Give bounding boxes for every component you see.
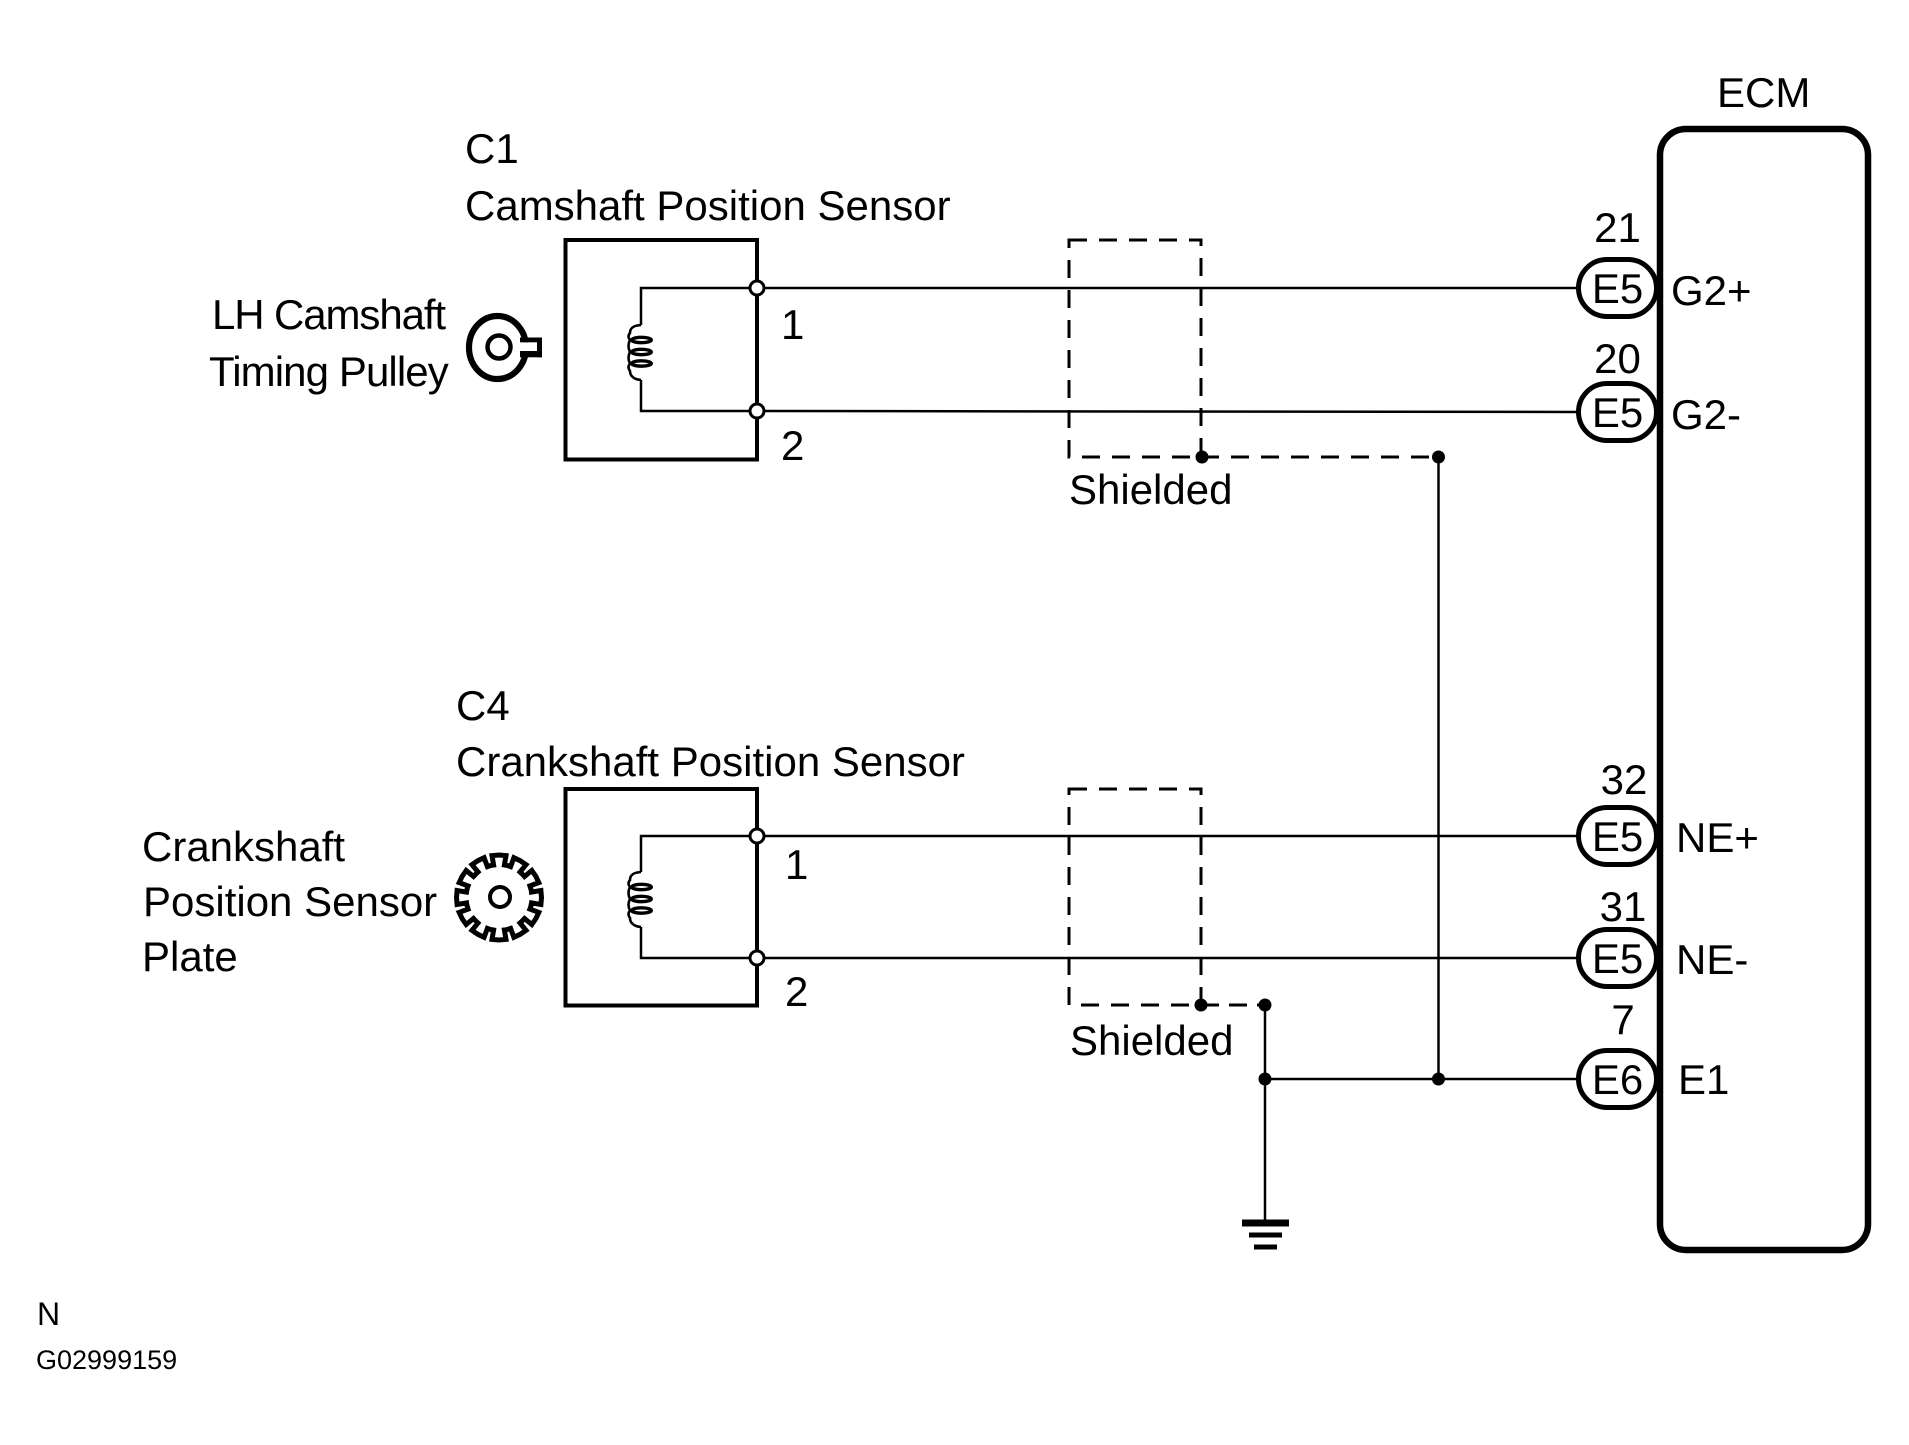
svg-text:C1: C1 xyxy=(465,125,519,172)
svg-text:LH Camshaft: LH Camshaft xyxy=(212,291,446,338)
inductor coil of C1 xyxy=(629,325,642,380)
C4 inner wire pin1 side xyxy=(641,836,757,872)
crankshaft position sensor plate gear symbol xyxy=(457,855,542,940)
wire G2+ net xyxy=(757,287,1578,290)
svg-text:G2+: G2+ xyxy=(1671,267,1752,314)
ECM terminal E6 pin 7 xyxy=(1579,1051,1657,1108)
C1 inner wire pin2 side xyxy=(641,380,757,411)
svg-text:Camshaft Position Sensor: Camshaft Position Sensor xyxy=(465,182,951,229)
svg-text:21: 21 xyxy=(1594,204,1641,251)
svg-text:N: N xyxy=(37,1296,60,1332)
svg-text:G2-: G2- xyxy=(1671,391,1741,438)
vertical shield drain wire xyxy=(1437,457,1440,1079)
svg-text:E5: E5 xyxy=(1592,935,1643,982)
svg-text:E5: E5 xyxy=(1592,813,1643,860)
pin 1 of C1 xyxy=(750,281,764,295)
shield2 dashed drain wire xyxy=(1201,1004,1265,1007)
svg-text:2: 2 xyxy=(785,968,808,1015)
svg-text:E1: E1 xyxy=(1678,1056,1729,1103)
coil turn ellipses C4 xyxy=(632,884,652,889)
svg-text:2: 2 xyxy=(781,422,804,469)
ground stem wire xyxy=(1264,1005,1267,1222)
svg-text:31: 31 xyxy=(1600,883,1647,930)
ECM terminal E5 pin 20 xyxy=(1579,384,1657,441)
pin 1 of C4 xyxy=(750,829,764,843)
svg-text:Timing Pulley: Timing Pulley xyxy=(209,348,449,395)
svg-text:Plate: Plate xyxy=(142,933,238,980)
junction shield2 to ground stem xyxy=(1259,999,1272,1012)
junction at shield2 corner xyxy=(1195,999,1208,1012)
svg-text:1: 1 xyxy=(781,301,804,348)
svg-text:C4: C4 xyxy=(456,682,510,729)
junction E1 wire with ground stem xyxy=(1259,1073,1272,1086)
crankshaft position sensor C4 box xyxy=(566,789,758,1006)
ECM U1 box xyxy=(1660,129,1868,1250)
svg-text:NE-: NE- xyxy=(1676,936,1748,983)
wire G2- net xyxy=(757,411,1578,412)
svg-text:E5: E5 xyxy=(1592,389,1643,436)
ECM terminal E5 pin 32 xyxy=(1579,808,1657,865)
svg-text:20: 20 xyxy=(1594,335,1641,382)
svg-text:Crankshaft Position Sensor: Crankshaft Position Sensor xyxy=(456,738,965,785)
svg-text:Crankshaft: Crankshaft xyxy=(142,823,345,870)
C4 inner wire pin2 side xyxy=(641,927,757,958)
coil turn ellipses C1 xyxy=(632,337,652,342)
svg-text:G02999159: G02999159 xyxy=(36,1345,177,1375)
ground symbol xyxy=(1242,1220,1289,1250)
shield box around C4 wires xyxy=(1069,789,1201,1005)
ECM terminal E5 pin 31 xyxy=(1579,930,1657,987)
wire NE+ net xyxy=(757,835,1578,838)
inductor coil of C4 xyxy=(629,872,642,927)
wire E1 net xyxy=(1265,1078,1578,1081)
junction E1 wire with shield drain xyxy=(1432,1073,1445,1086)
svg-text:ECM: ECM xyxy=(1717,69,1810,116)
svg-text:E6: E6 xyxy=(1592,1056,1643,1103)
svg-text:Position Sensor: Position Sensor xyxy=(143,878,437,925)
pin 2 of C1 xyxy=(750,404,764,418)
ECM terminal E5 pin 21 xyxy=(1579,260,1657,317)
svg-text:Shielded: Shielded xyxy=(1069,466,1232,513)
shield box around C1 wires xyxy=(1069,240,1201,457)
camshaft position sensor C1 box xyxy=(566,240,758,460)
svg-text:Shielded: Shielded xyxy=(1070,1017,1233,1064)
wire NE- net xyxy=(757,957,1578,960)
junction shield1 to vertical drain xyxy=(1432,451,1445,464)
shield drain dashed wire to ground net xyxy=(1201,456,1438,459)
svg-text:NE+: NE+ xyxy=(1676,814,1759,861)
junction at shield1 corner xyxy=(1196,451,1209,464)
LH camshaft timing pulley symbol xyxy=(469,316,542,379)
svg-text:1: 1 xyxy=(785,841,808,888)
pin 2 of C4 xyxy=(750,951,764,965)
svg-text:7: 7 xyxy=(1611,996,1634,1043)
C1 inner wire pin1 side xyxy=(641,288,757,325)
svg-text:E5: E5 xyxy=(1592,265,1643,312)
svg-text:32: 32 xyxy=(1601,756,1648,803)
